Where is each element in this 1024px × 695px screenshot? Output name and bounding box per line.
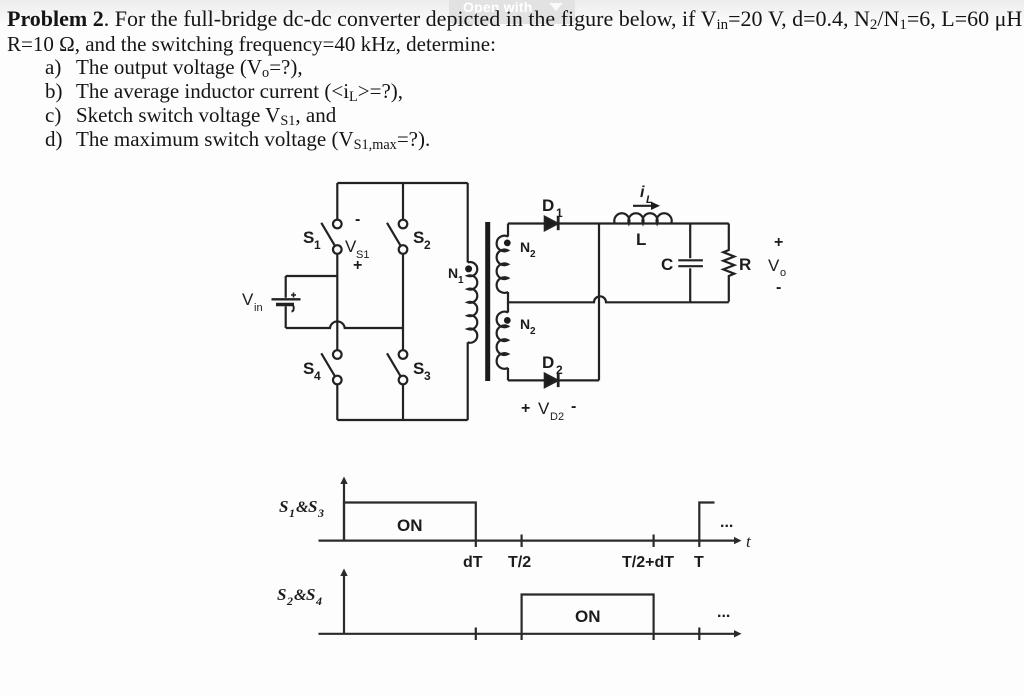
- label R: [739, 255, 751, 274]
- waveform S2S4 vertical axis: [340, 569, 347, 634]
- svg-text:N: N: [520, 316, 530, 332]
- svg-text:3: 3: [424, 369, 431, 383]
- battery Vin: [272, 276, 301, 328]
- wire secondary center tap lead: [507, 292, 509, 313]
- svg-text:4: 4: [315, 594, 322, 608]
- primary phase dot: [465, 265, 472, 272]
- svg-text:S: S: [303, 228, 314, 247]
- wire middle leg lower (S3 to bottom rail): [402, 384, 404, 420]
- switch S4: [321, 350, 341, 384]
- svg-text:ON: ON: [397, 516, 423, 535]
- svg-text:...: ...: [720, 514, 733, 531]
- svg-text:-: -: [571, 398, 576, 415]
- wire middle leg upper (top rail to S2): [402, 183, 404, 220]
- svg-text:R: R: [739, 255, 751, 274]
- svg-text:N: N: [448, 265, 458, 281]
- label S2&S4: [277, 585, 322, 608]
- wire left leg upper (top rail to S1): [336, 183, 338, 220]
- ellipsis bottom waveform: [717, 604, 730, 621]
- svg-text:S: S: [277, 585, 286, 604]
- svg-text:in: in: [254, 302, 263, 314]
- secondary bottom phase dot: [504, 317, 511, 324]
- svg-text:ON: ON: [575, 607, 601, 626]
- ellipsis top waveform: [720, 514, 733, 531]
- svg-text:+: +: [774, 234, 783, 251]
- label S3: [413, 359, 431, 383]
- label Vin: [242, 290, 263, 314]
- capacitor C: [678, 224, 703, 302]
- label S1: [303, 228, 321, 252]
- wire secondary top lead: [507, 224, 509, 237]
- node rectifier junction vertical wire (D1 to D2): [598, 224, 600, 381]
- svg-text:1: 1: [289, 506, 295, 520]
- svg-text:2: 2: [556, 363, 563, 377]
- wire secondary bottom lead: [507, 368, 509, 381]
- svg-text:T/2: T/2: [508, 554, 531, 571]
- wire top rail: [337, 182, 467, 184]
- wire output bottom rail: [606, 301, 729, 303]
- label Vo polarity: [768, 234, 786, 296]
- wire secondary bottom to D2 to junction: [508, 379, 599, 381]
- svg-text:D: D: [542, 353, 554, 372]
- svg-text:o: o: [780, 267, 786, 279]
- label iL with arrow: [640, 184, 653, 206]
- label C: [661, 255, 673, 274]
- label L: [636, 230, 646, 249]
- waveform S2S4 ON pulse: [522, 595, 654, 641]
- waveform S1S3 next period edge at T: [699, 503, 714, 548]
- label T: [694, 554, 704, 571]
- switch S3: [387, 350, 407, 384]
- svg-text:-: -: [776, 279, 781, 296]
- svg-text:S: S: [303, 359, 314, 378]
- label N2 bottom: [520, 316, 536, 337]
- diode D1: [545, 217, 558, 230]
- battery plus mark: [291, 293, 296, 298]
- label ON second pulse: [575, 607, 601, 626]
- svg-text:t: t: [746, 532, 752, 551]
- waveform S1S3 horizontal axis: [319, 537, 742, 544]
- inductor L: [614, 213, 671, 223]
- svg-text:L: L: [636, 230, 646, 249]
- label N1: [448, 265, 464, 286]
- svg-text:4: 4: [314, 369, 321, 383]
- label T/2: [508, 554, 531, 571]
- label dT: [463, 554, 483, 571]
- svg-text:+: +: [521, 400, 530, 417]
- svg-text:D: D: [542, 196, 554, 215]
- svg-text:-: -: [355, 211, 360, 228]
- resistor R: [723, 224, 734, 302]
- svg-text:C: C: [661, 255, 673, 274]
- svg-text:V: V: [242, 290, 254, 309]
- wire left leg middle (S1 to S4): [336, 254, 338, 350]
- wire top output (secondary to D1 to junction): [508, 222, 729, 224]
- svg-text:2: 2: [530, 326, 536, 337]
- tick dT bottom axis: [475, 628, 477, 641]
- transformer primary winding N1: [468, 262, 478, 343]
- svg-text:2: 2: [424, 238, 431, 252]
- svg-text:T: T: [694, 554, 704, 571]
- svg-text:T/2+dT: T/2+dT: [622, 554, 674, 571]
- label VS1 with polarity: [345, 211, 369, 274]
- secondary top phase dot: [504, 240, 511, 247]
- wire battery positive to left leg: [286, 275, 338, 277]
- switch S1: [321, 220, 341, 254]
- svg-text:V: V: [768, 256, 780, 275]
- label S2: [413, 228, 431, 252]
- tick T/2+dT top axis: [652, 535, 654, 548]
- svg-text:+: +: [353, 257, 362, 274]
- svg-text:D2: D2: [550, 411, 564, 423]
- label N2 top: [520, 239, 536, 260]
- svg-text:N: N: [520, 239, 530, 255]
- tick T bottom axis: [698, 628, 700, 641]
- label D2: [542, 353, 563, 377]
- svg-text:...: ...: [717, 604, 730, 621]
- arrow iL: [633, 202, 660, 210]
- svg-text:3: 3: [317, 506, 324, 520]
- transformer secondary winding N2 top: [497, 236, 508, 293]
- tick T/2 top axis: [520, 535, 522, 548]
- svg-text:i: i: [640, 184, 645, 201]
- svg-text:V: V: [538, 399, 550, 418]
- wire primary upper (top rail to winding): [467, 183, 469, 263]
- svg-text:dT: dT: [463, 554, 483, 571]
- waveform S2S4 horizontal axis: [319, 630, 742, 637]
- switch S2: [387, 220, 407, 254]
- label D1: [542, 196, 563, 220]
- svg-text:2: 2: [530, 249, 536, 260]
- label ON first pulse: [397, 516, 423, 535]
- transformer core: [485, 222, 490, 381]
- svg-text:S: S: [413, 359, 424, 378]
- wire primary lower (winding to bottom rail): [467, 342, 469, 420]
- wire left leg lower (S4 to bottom rail): [336, 384, 338, 420]
- wire middle leg middle (S2 to S3): [402, 254, 404, 350]
- diode D2: [545, 374, 558, 387]
- label t axis: [746, 532, 752, 551]
- svg-text:1: 1: [314, 238, 321, 252]
- svg-text:2: 2: [286, 594, 293, 608]
- svg-text:S: S: [413, 228, 424, 247]
- label T/2+dT: [622, 554, 674, 571]
- waveform S1S3 ON pulse: [344, 503, 476, 548]
- svg-text:1: 1: [458, 275, 464, 286]
- svg-text:1: 1: [556, 206, 563, 220]
- svg-text:S: S: [308, 497, 317, 516]
- wire battery negative to middle leg with hump over left leg: [286, 321, 403, 328]
- label S4: [303, 359, 321, 383]
- label S1&S3: [279, 497, 324, 520]
- svg-text:S: S: [306, 585, 315, 604]
- transformer secondary winding N2 bottom: [497, 312, 508, 369]
- waveform S1S3 vertical axis: [340, 477, 347, 541]
- wire center tap to output return with hump over rectifier wire: [508, 296, 729, 302]
- svg-text:S: S: [279, 497, 288, 516]
- wire bottom rail: [337, 419, 467, 421]
- label VD2 polarity: [521, 398, 576, 423]
